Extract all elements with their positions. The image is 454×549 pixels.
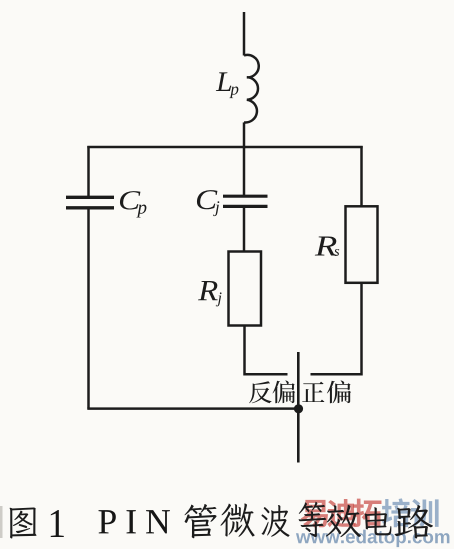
wire right branch upper	[360, 146, 363, 206]
caption: PIN	[99, 510, 116, 533]
wire inductor to top rail	[243, 122, 246, 147]
wire top terminal	[243, 12, 246, 56]
wire Rj to bottom junction	[245, 326, 288, 375]
capacitor Cj	[223, 196, 268, 206]
caption: digit 1	[51, 510, 64, 537]
scan edge smudge	[0, 506, 3, 538]
inductor L_p	[244, 55, 259, 123]
label Rs	[315, 237, 337, 256]
watermark www.edatop.com	[296, 533, 311, 543]
wire middle branch upper	[243, 147, 246, 196]
caption: guan wei bo deng xiao dian lu	[185, 504, 217, 538]
wire Cj to Rj	[243, 208, 246, 252]
resistor Rj	[229, 252, 262, 326]
capacitor Cp	[66, 197, 114, 208]
wire left branch upper	[87, 146, 90, 196]
node junction dot	[294, 404, 303, 413]
resistor Rs	[346, 206, 378, 282]
wire Rs to bottom	[311, 283, 362, 374]
caption: figure index "tu 1"	[10, 507, 37, 538]
label Lp	[216, 72, 231, 91]
wire top rail	[87, 146, 362, 149]
wire bottom rail	[87, 407, 298, 410]
wire left branch lower	[87, 209, 90, 409]
wire bias line	[297, 352, 300, 463]
watermark yi-di-tuo (red)	[301, 500, 328, 528]
watermark pei-xun (blue)	[382, 498, 411, 527]
label zheng-pian (forward bias)	[302, 382, 324, 402]
label Cp	[120, 191, 140, 209]
label fan-pian (reverse bias)	[249, 381, 272, 403]
label Cj	[197, 190, 217, 209]
label Rj	[198, 281, 218, 300]
